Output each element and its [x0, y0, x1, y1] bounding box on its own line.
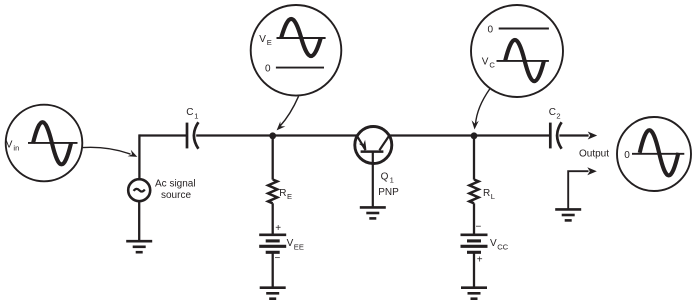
wire C1 to node E [196, 134, 273, 136]
arrow VE to node E [277, 96, 299, 130]
svg-text:V: V [482, 56, 489, 67]
svg-text:R: R [483, 188, 490, 199]
svg-text:CC: CC [497, 243, 508, 252]
svg-text:−: − [476, 222, 482, 233]
svg-text:Ac signal: Ac signal [155, 179, 196, 190]
svg-text:+: + [477, 255, 483, 266]
svg-text:PNP: PNP [378, 187, 399, 198]
ground at VCC [461, 288, 487, 299]
svg-text:L: L [491, 192, 495, 201]
svg-text:V: V [287, 238, 294, 249]
svg-text:V: V [259, 34, 266, 45]
svg-text:in: in [13, 144, 19, 153]
ground at ac source [126, 241, 152, 252]
svg-text:Q: Q [381, 172, 389, 183]
svg-text:R: R [279, 188, 286, 199]
svg-text:−: − [275, 253, 281, 264]
svg-text:1: 1 [390, 176, 394, 185]
label RE [279, 188, 292, 201]
resistor RL [469, 180, 478, 204]
label VEE [287, 238, 304, 252]
wire RE to battery VEE [272, 203, 274, 235]
transistor Q1 [355, 127, 392, 208]
wire corner vertical down to ac source [138, 134, 140, 179]
wire ac source to ground [138, 201, 140, 241]
wire RL to battery VCC [473, 203, 475, 235]
node C junction dot [471, 132, 478, 139]
label VCC [490, 238, 509, 252]
svg-text:E: E [287, 192, 292, 201]
wire node C down to RL [473, 136, 475, 180]
node VE waveform inset [251, 5, 342, 96]
node VC waveform inset [471, 5, 563, 97]
svg-text:C: C [186, 107, 193, 118]
node Vin waveform inset [6, 105, 83, 182]
label Q1 PNP [378, 172, 399, 198]
svg-text:1: 1 [194, 111, 198, 120]
svg-text:Output: Output [579, 148, 609, 159]
svg-text:V: V [490, 238, 497, 249]
wire battery VEE to ground [272, 252, 274, 287]
arrow VC to node C [472, 89, 490, 130]
ground at VEE [260, 288, 286, 299]
ground at transistor base [360, 207, 386, 218]
battery VCC [461, 235, 488, 253]
wire node E to transistor [273, 134, 358, 136]
svg-text:0: 0 [624, 150, 630, 161]
label Ac signal source [155, 179, 196, 201]
label C1 [186, 107, 198, 121]
node E junction dot [269, 132, 276, 139]
wire node E down to RE [272, 136, 274, 180]
svg-text:0: 0 [488, 25, 494, 36]
wire transistor to node C [389, 134, 474, 136]
node output waveform inset [617, 117, 691, 191]
svg-text:C: C [489, 60, 495, 69]
arrow Vin to wire [82, 147, 137, 157]
label RL [483, 188, 495, 201]
wire C2 to output arrow [559, 132, 597, 140]
svg-text:+: + [275, 223, 281, 234]
svg-text:2: 2 [556, 111, 560, 120]
wire main left segment corner to C1 [139, 134, 187, 136]
svg-text:E: E [267, 38, 272, 47]
ground at output reference [555, 209, 581, 220]
svg-text:0: 0 [265, 64, 271, 75]
label C2 [549, 107, 561, 120]
ac signal source [128, 179, 150, 201]
svg-text:source: source [161, 190, 191, 201]
wire battery VCC to ground [473, 252, 475, 287]
capacitor C2 [550, 122, 561, 148]
wire output reference elbow with arrow [568, 167, 597, 209]
svg-text:EE: EE [294, 243, 304, 252]
svg-text:C: C [549, 107, 556, 118]
wire node C to C2 [474, 134, 550, 136]
svg-text:V: V [6, 140, 13, 151]
resistor RE [268, 180, 277, 204]
capacitor C1 [187, 122, 198, 148]
battery VEE [259, 235, 286, 253]
